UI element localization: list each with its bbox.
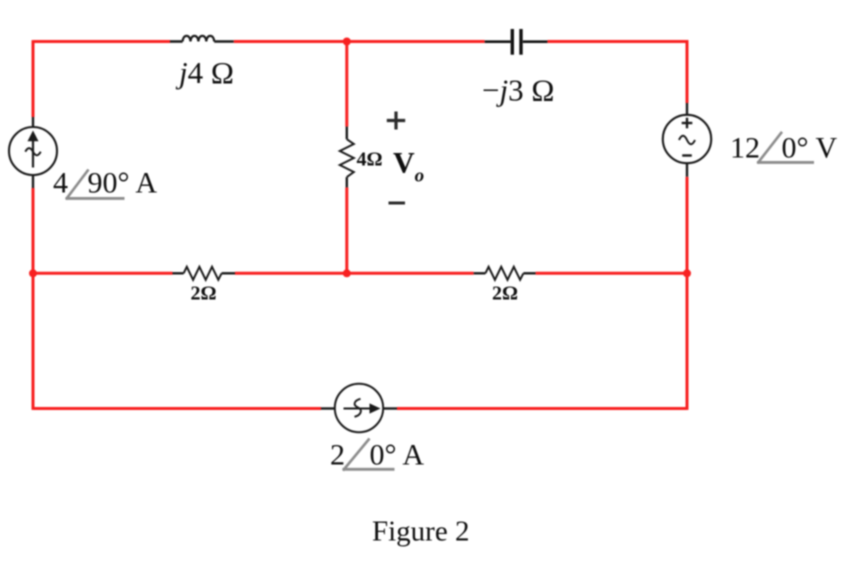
wire top-left segment (33, 40, 170, 43)
svg-text:0° A: 0° A (370, 439, 425, 472)
svg-text:4: 4 (53, 167, 68, 200)
svg-text:2Ω: 2Ω (492, 283, 518, 305)
resistor 4ohm (middle vertical) (340, 127, 354, 188)
wire middle horizontal left (33, 272, 173, 275)
node junction middle-right (683, 269, 691, 277)
inductor j4 (170, 36, 234, 42)
label 12 angle 0 V (730, 132, 837, 165)
svg-text:−j3 Ω: −j3 Ω (482, 73, 554, 108)
svg-text:0° V: 0° V (782, 132, 838, 165)
wire bottom horizontal left (33, 407, 321, 410)
plus sign of Vo (387, 112, 405, 130)
svg-text:j4 Ω: j4 Ω (175, 55, 234, 90)
wire top-middle segment (234, 40, 485, 43)
current source I2 (bottom, AC, arrow right) (321, 384, 397, 432)
current source I1 (left, AC, arrow up) (9, 117, 57, 188)
voltage source V1 (right, AC) (663, 103, 711, 177)
wire top-right segment (547, 40, 688, 43)
minus sign of Vo (389, 202, 406, 205)
svg-text:2Ω: 2Ω (191, 283, 217, 305)
svg-text:90° A: 90° A (88, 167, 158, 200)
capacitor -j3 (485, 29, 548, 55)
node junction middle-left (29, 269, 37, 277)
wire middle horizontal center (235, 272, 474, 275)
wire middle vertical lower (345, 187, 348, 273)
label 2 angle 0 A (330, 439, 424, 472)
wire middle horizontal right (536, 272, 687, 275)
svg-text:Vo: Vo (393, 147, 424, 187)
wire right vertical upper (686, 40, 689, 103)
wire right vertical lower (686, 177, 689, 410)
svg-text:12: 12 (730, 132, 760, 165)
label 4 angle 90 A (53, 167, 157, 200)
wire bottom horizontal right (397, 407, 687, 410)
node junction top middle (343, 38, 351, 46)
resistor 2ohm (bottom-left horizontal) (173, 267, 236, 280)
svg-text:4Ω: 4Ω (357, 149, 383, 171)
node junction middle-center (343, 269, 351, 277)
wire left vertical upper (32, 40, 35, 117)
resistor 2ohm (bottom-right horizontal) (474, 267, 536, 280)
wire middle vertical upper (345, 42, 348, 127)
wire left vertical lower (32, 188, 35, 410)
svg-text:Figure 2: Figure 2 (372, 516, 469, 548)
svg-text:2: 2 (330, 439, 345, 472)
